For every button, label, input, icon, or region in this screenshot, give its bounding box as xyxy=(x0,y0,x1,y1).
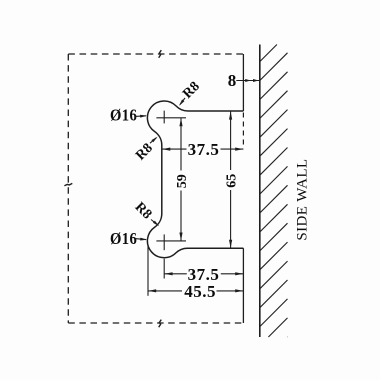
glass right edge solid lower segment xyxy=(242,248,244,323)
break tick on bottom edge xyxy=(159,320,162,328)
top knob center cross xyxy=(156,111,186,124)
dim 59 (between knob centers) xyxy=(180,118,182,171)
break tick on left edge xyxy=(64,183,72,185)
svg-text:Ø16: Ø16 xyxy=(110,230,137,248)
svg-text:65: 65 xyxy=(225,174,240,188)
svg-text:37.5: 37.5 xyxy=(188,140,220,159)
glass panel dashed outline: left edge xyxy=(67,54,69,323)
glass right edge hidden dashes below top arm xyxy=(242,113,244,147)
svg-text:SIDE WALL: SIDE WALL xyxy=(294,159,310,241)
svg-text:45.5: 45.5 xyxy=(184,282,216,301)
side wall face line xyxy=(259,45,261,338)
glass panel dashed outline: top edge xyxy=(68,53,243,55)
dim 37.5 bottom xyxy=(164,273,187,275)
dim 65 (arm outer faces) xyxy=(230,111,232,170)
dim 45.5 xyxy=(148,290,182,292)
bottom knob center cross xyxy=(156,234,186,250)
glass panel dashed outline: bottom edge xyxy=(68,322,243,324)
wall hatching xyxy=(260,45,288,338)
extension line below bottom knob center xyxy=(163,259,165,279)
break tick on top edge xyxy=(159,50,162,58)
dim 37.5 top xyxy=(162,148,187,150)
svg-text:59: 59 xyxy=(175,174,190,188)
svg-text:8: 8 xyxy=(228,71,237,90)
dim 8 (gap to wall) xyxy=(236,80,259,82)
clamp body outline xyxy=(147,101,243,258)
extension line from knob left tangent xyxy=(147,246,149,296)
svg-text:Ø16: Ø16 xyxy=(110,107,137,125)
glass right edge solid upper segment / 8-dim extension xyxy=(242,54,244,111)
